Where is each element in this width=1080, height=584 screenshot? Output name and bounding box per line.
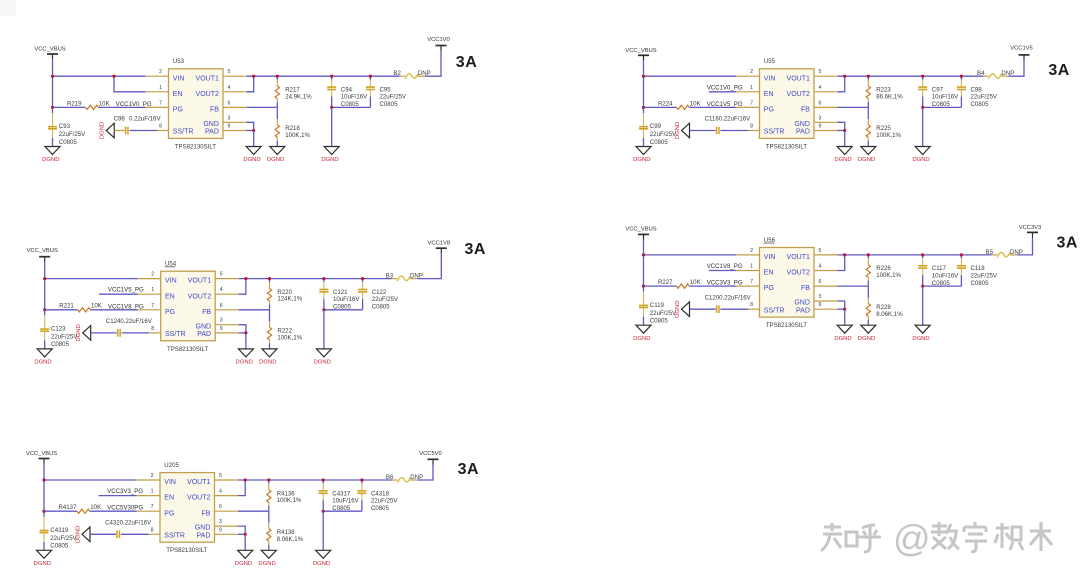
wire PAD to ground xyxy=(844,309,846,325)
wire PG row right xyxy=(90,510,137,512)
junction VOUT2 xyxy=(843,253,846,256)
svg-text:VCC3V3_PG: VCC3V3_PG xyxy=(107,488,143,495)
svg-text:2: 2 xyxy=(151,473,154,479)
junction C1 top xyxy=(330,75,333,78)
svg-text:TPS82130SILT: TPS82130SILT xyxy=(766,322,807,329)
svg-text:22uF/25V: 22uF/25V xyxy=(971,272,998,279)
wire VCC_VBUS vertical xyxy=(643,60,645,113)
junction C2 top xyxy=(361,277,364,280)
capacitor C97 10uF/16V C0805 xyxy=(918,76,959,108)
junction VBUS-VIN xyxy=(43,277,46,280)
wire PG row right xyxy=(689,106,736,108)
wire EN stub (net VCC1V5_PG) xyxy=(99,293,137,295)
junction C2 top xyxy=(960,75,963,78)
svg-text:C0805: C0805 xyxy=(971,280,990,287)
svg-text:C93: C93 xyxy=(59,123,71,130)
svg-text:10uF/16V: 10uF/16V xyxy=(932,94,959,101)
pin 4 VOUT2 xyxy=(188,287,239,300)
svg-text:VCC_VBUS: VCC_VBUS xyxy=(27,248,58,254)
svg-text:GND: GND xyxy=(794,121,810,128)
wire R1 top xyxy=(269,279,271,282)
junction R1 top xyxy=(867,75,870,78)
wire EN stub (net VCC1V8_PG) xyxy=(709,270,736,272)
wire EN tie to VIN xyxy=(114,76,145,92)
power flag VCC1V0 xyxy=(427,37,450,51)
pin 4 VOUT2 xyxy=(787,85,838,98)
svg-text:R225: R225 xyxy=(876,125,891,132)
pin 4 VOUT2 xyxy=(196,85,247,98)
resistor R224 10K xyxy=(658,100,701,109)
svg-text:3: 3 xyxy=(219,519,222,525)
capacitor C119 22uF/25V C0805 xyxy=(639,292,677,325)
svg-text:C97: C97 xyxy=(932,87,944,94)
resistor R218 100K,1% xyxy=(275,119,310,141)
svg-text:5: 5 xyxy=(220,272,223,278)
power flag VCC_VBUS (U54) xyxy=(27,248,58,262)
svg-text:100K,1%: 100K,1% xyxy=(285,132,310,139)
svg-text:5: 5 xyxy=(819,69,822,75)
svg-text:C0805: C0805 xyxy=(50,543,69,550)
pin 9 PAD xyxy=(796,302,837,314)
wire C2 down xyxy=(369,97,371,108)
IC U54 TPS82130SILT xyxy=(161,261,216,353)
pin 3 GND xyxy=(794,294,837,307)
junction GND/PAD xyxy=(244,533,247,536)
svg-text:C1160.22uF/16V: C1160.22uF/16V xyxy=(705,116,752,123)
svg-text:2: 2 xyxy=(151,272,154,278)
wire to input ground xyxy=(643,138,645,147)
junction cap ground xyxy=(330,106,333,109)
capacitor C118 22uF/25V C0805 xyxy=(957,255,998,287)
svg-text:DGND: DGND xyxy=(267,157,284,163)
svg-text:100K,1%: 100K,1% xyxy=(277,497,302,504)
resistor R217 24.9K,1% xyxy=(275,80,312,103)
svg-text:3A: 3A xyxy=(1048,62,1069,79)
svg-text:SS/TR: SS/TR xyxy=(165,331,186,338)
wire R2 to ground xyxy=(268,545,270,551)
svg-text:3: 3 xyxy=(819,294,822,300)
svg-text:DGND: DGND xyxy=(100,122,106,139)
pin 8 SS/TR xyxy=(149,527,185,539)
svg-text:4: 4 xyxy=(220,287,223,293)
wire C1 to bottom rail xyxy=(331,97,333,108)
wire to input ground xyxy=(52,138,54,147)
svg-text:VCC1V0: VCC1V0 xyxy=(427,37,450,43)
svg-text:2: 2 xyxy=(159,69,162,75)
resistor R4136 100K,1% xyxy=(267,483,302,506)
svg-text:VIN: VIN xyxy=(164,479,176,486)
svg-text:3A: 3A xyxy=(1057,234,1078,251)
wire VOUT rail xyxy=(247,75,400,77)
pin 1 EN xyxy=(138,287,175,300)
wire caps to ground xyxy=(331,107,333,146)
svg-text:1: 1 xyxy=(151,287,154,293)
corner speck xyxy=(0,0,16,16)
svg-text:DGND: DGND xyxy=(75,526,81,543)
ground DGND input xyxy=(37,349,52,357)
pin 4 VOUT2 xyxy=(187,489,238,502)
power flag VCC_VBUS (U55) xyxy=(625,48,656,61)
svg-text:2: 2 xyxy=(750,248,753,254)
svg-text:10K: 10K xyxy=(690,279,701,286)
wire VCC_VBUS vertical xyxy=(52,59,54,113)
ground DGND PAD xyxy=(238,550,253,558)
pin 3 GND xyxy=(196,318,239,331)
svg-text:PG: PG xyxy=(764,285,774,292)
resistor R222 100K,1% xyxy=(267,321,302,343)
svg-text:DGND: DGND xyxy=(314,360,331,366)
wire VOUT2 tie xyxy=(838,76,845,92)
wire GND jog xyxy=(238,526,245,534)
resistor R226 100K,1% xyxy=(866,258,901,281)
wire C1 to bottom rail xyxy=(922,97,924,108)
svg-text:PG: PG xyxy=(164,510,174,517)
svg-text:EN: EN xyxy=(764,91,774,98)
svg-text:5: 5 xyxy=(819,248,822,254)
capacitor C4320.22uF/16V 0.22uF/16V xyxy=(105,520,152,539)
svg-text:VOUT2: VOUT2 xyxy=(787,91,810,98)
wire EN stub (net VCC1V0_PG) xyxy=(709,91,736,93)
svg-text:VCC1V8_PG: VCC1V8_PG xyxy=(707,263,743,270)
svg-text:22uF/25V: 22uF/25V xyxy=(380,94,407,101)
junction VOUT2 xyxy=(244,277,247,280)
svg-text:7: 7 xyxy=(750,279,753,285)
svg-text:C123: C123 xyxy=(51,326,66,333)
ground DGND PAD xyxy=(837,147,852,155)
wire VIN rail from VCC_VBUS xyxy=(644,75,737,77)
wire PG row right xyxy=(689,285,736,287)
junction cap ground xyxy=(921,106,924,109)
resistor R4138 8.06K,1% xyxy=(267,523,304,545)
wire cap bottoms xyxy=(323,510,362,512)
junction cap ground xyxy=(322,308,325,311)
svg-text:EN: EN xyxy=(764,270,774,277)
svg-text:24.9K,1%: 24.9K,1% xyxy=(285,93,312,100)
ferrite bead B2 DNP xyxy=(393,70,430,79)
svg-text:VIN: VIN xyxy=(764,254,776,261)
svg-text:DGND: DGND xyxy=(34,360,51,366)
pin 9 PAD xyxy=(796,124,837,136)
svg-text:22uF/25V: 22uF/25V xyxy=(372,296,399,303)
wire PG row right xyxy=(91,309,138,311)
svg-text:VIN: VIN xyxy=(165,278,177,285)
svg-text:124K,1%: 124K,1% xyxy=(277,296,302,303)
wire R1 to FB xyxy=(268,506,270,511)
ferrite bead B3 DNP xyxy=(386,273,423,282)
junction C1 top xyxy=(921,253,924,256)
svg-text:C0805: C0805 xyxy=(372,304,391,311)
svg-text:B4: B4 xyxy=(977,70,985,77)
junction C1 top xyxy=(322,277,325,280)
IC U55 TPS82130SILT xyxy=(760,58,815,150)
capacitor C1160.22uF/16V 0.22uF/16V xyxy=(705,116,752,135)
wire SS ground to cap xyxy=(90,533,116,535)
svg-text:C4318: C4318 xyxy=(371,490,390,497)
wire to input ground xyxy=(43,542,45,551)
ground DGND caps xyxy=(316,550,331,558)
wire PAD to ground xyxy=(244,534,246,550)
wire R1 top xyxy=(268,480,270,483)
pin 6 FB xyxy=(201,504,238,517)
wire bead to output flag xyxy=(1017,237,1032,255)
svg-text:R222: R222 xyxy=(277,328,292,335)
svg-text:C1200.22uF/16V: C1200.22uF/16V xyxy=(705,294,752,301)
junction VBUS-PG row xyxy=(642,106,645,109)
svg-text:4: 4 xyxy=(819,264,822,270)
capacitor C4317 10uF/16V C0805 xyxy=(319,480,360,512)
svg-text:10uF/16V: 10uF/16V xyxy=(333,296,360,303)
wire SS cap to pin xyxy=(720,130,748,132)
wire R1 to FB xyxy=(867,102,869,107)
capacitor C95 22uF/25V C0805 xyxy=(366,76,407,108)
wire PG row left xyxy=(45,309,78,311)
power flag VCC1V8 xyxy=(428,240,451,253)
ground DGND SS/TR xyxy=(83,326,91,341)
wire R1 top xyxy=(276,76,278,79)
wire R2 to ground xyxy=(269,343,271,349)
resistor R223 86.6K,1% xyxy=(866,80,903,103)
svg-text:C0805: C0805 xyxy=(380,101,399,108)
svg-text:3: 3 xyxy=(819,115,822,121)
svg-text:9: 9 xyxy=(220,326,223,332)
svg-text:VIN: VIN xyxy=(173,75,185,82)
ground DGND R2 xyxy=(261,550,276,558)
svg-text:R4138: R4138 xyxy=(277,529,296,536)
svg-text:5: 5 xyxy=(228,69,231,75)
power flag VCC1V5 xyxy=(1010,46,1033,61)
svg-text:@: @ xyxy=(893,518,931,559)
wire C1 to bottom rail xyxy=(922,275,924,286)
svg-text:VOUT1: VOUT1 xyxy=(188,278,211,285)
svg-text:VOUT2: VOUT2 xyxy=(787,270,810,277)
svg-text:VOUT2: VOUT2 xyxy=(196,91,219,98)
svg-text:22uF/25V: 22uF/25V xyxy=(650,310,677,317)
wire to input ground xyxy=(44,340,46,349)
resistor R219 10K xyxy=(67,100,110,109)
junction VBUS-VIN xyxy=(51,75,54,78)
ground DGND caps xyxy=(316,349,331,357)
junction EN tie xyxy=(112,75,115,78)
svg-text:3A: 3A xyxy=(456,54,477,71)
svg-text:C0805: C0805 xyxy=(59,139,78,146)
ground DGND PAD xyxy=(238,349,253,357)
junction C2 top xyxy=(369,75,372,78)
wire FB to R2 xyxy=(867,107,869,119)
svg-text:C4317: C4317 xyxy=(332,490,351,497)
svg-text:DGND: DGND xyxy=(912,157,929,163)
svg-text:VIN: VIN xyxy=(764,75,776,82)
svg-text:C118: C118 xyxy=(971,265,986,272)
ground DGND input xyxy=(37,550,52,558)
wire SS cap to pin xyxy=(122,332,150,334)
svg-text:10uF/16V: 10uF/16V xyxy=(932,272,959,279)
wire C2 down xyxy=(960,97,962,108)
svg-text:PAD: PAD xyxy=(197,331,211,338)
wire PG row left xyxy=(53,106,86,108)
svg-text:10K: 10K xyxy=(90,504,101,511)
resistor R4137 10K xyxy=(59,504,102,513)
wire PG row left xyxy=(644,106,677,108)
svg-text:DGND: DGND xyxy=(235,561,252,567)
svg-text:PG: PG xyxy=(764,107,774,114)
svg-text:22uF/25V: 22uF/25V xyxy=(650,131,677,138)
svg-text:C117: C117 xyxy=(932,265,947,272)
svg-text:C119: C119 xyxy=(650,302,665,309)
svg-text:B6: B6 xyxy=(386,474,394,481)
ground DGND R2 xyxy=(861,325,876,333)
pin 6 FB xyxy=(210,100,247,113)
wire FB to divider xyxy=(247,106,278,108)
svg-text:VCC1V0_PG: VCC1V0_PG xyxy=(707,84,743,91)
svg-text:6: 6 xyxy=(228,100,231,106)
wire VOUT rail xyxy=(838,254,992,256)
svg-text:2: 2 xyxy=(750,69,753,75)
junction C1 top xyxy=(921,75,924,78)
wire VIN rail from VCC_VBUS xyxy=(644,254,737,256)
wire caps to ground xyxy=(922,286,924,325)
capacitor C117 10uF/16V C0805 xyxy=(918,255,959,287)
junction cap ground xyxy=(921,285,924,288)
wire SS ground to cap xyxy=(91,332,117,334)
wire GND jog xyxy=(239,325,246,333)
svg-text:VCC3V3: VCC3V3 xyxy=(1019,225,1042,231)
svg-text:C1240.22uF/16V: C1240.22uF/16V xyxy=(106,318,153,325)
wire bead to output flag xyxy=(425,51,441,77)
junction C2 top xyxy=(360,478,363,481)
capacitor C94 10uF/16V C0805 xyxy=(327,76,368,108)
pin 2 VIN xyxy=(736,69,775,82)
svg-text:10K: 10K xyxy=(91,303,102,310)
svg-text:6: 6 xyxy=(220,303,223,309)
capacitor C1240.22uF/16V 0.22uF/16V xyxy=(106,318,153,337)
wire C2 down xyxy=(960,275,962,286)
svg-text:R218: R218 xyxy=(285,125,300,132)
svg-text:9: 9 xyxy=(819,302,822,308)
junction VBUS-PG row xyxy=(43,308,46,311)
capacitor C123 22uF/25V C0805 xyxy=(40,315,78,348)
svg-text:100K,1%: 100K,1% xyxy=(876,272,901,279)
wire SS cap to pin xyxy=(720,308,748,310)
svg-text:DGND: DGND xyxy=(313,561,330,567)
svg-text:DGND: DGND xyxy=(76,324,82,341)
ground DGND R2 xyxy=(270,147,285,155)
wire FB to R2 xyxy=(268,511,270,523)
svg-text:1: 1 xyxy=(750,264,753,270)
svg-text:R4137: R4137 xyxy=(59,504,78,511)
svg-text:8: 8 xyxy=(151,326,154,332)
svg-text:SS/TR: SS/TR xyxy=(164,533,185,540)
pin 8 SS/TR xyxy=(748,124,784,136)
svg-text:C0805: C0805 xyxy=(51,341,70,348)
svg-text:8: 8 xyxy=(159,124,162,130)
ground DGND input xyxy=(45,147,60,155)
wire PAD to ground xyxy=(844,131,846,147)
wire PG row right xyxy=(98,106,145,108)
svg-text:TPS82130SILT: TPS82130SILT xyxy=(175,143,216,150)
svg-text:DGND: DGND xyxy=(243,157,260,163)
wire FB to divider xyxy=(239,309,270,311)
svg-text:DGND: DGND xyxy=(675,122,681,139)
svg-text:GND: GND xyxy=(195,525,211,532)
svg-text:SS/TR: SS/TR xyxy=(764,129,785,136)
svg-text:DGND: DGND xyxy=(834,336,851,342)
junction cap ground xyxy=(322,510,325,513)
wire PAD to ground xyxy=(253,131,255,147)
capacitor C1200.22uF/16V 0.22uF/16V xyxy=(705,294,752,313)
capacitor C99 22uF/25V C0805 xyxy=(639,113,677,146)
svg-text:C121: C121 xyxy=(333,289,348,296)
wire C2 down xyxy=(362,299,364,310)
wire VOUT2 tie xyxy=(238,480,245,496)
capacitor C122 22uF/25V C0805 xyxy=(358,279,399,311)
svg-text:DGND: DGND xyxy=(912,336,929,342)
svg-text:PAD: PAD xyxy=(796,307,810,314)
capacitor C4318 22uF/25V C0805 xyxy=(357,480,398,512)
wire FB to R2 xyxy=(867,286,869,298)
wire FB to divider xyxy=(838,106,869,108)
svg-text:DGND: DGND xyxy=(34,561,51,567)
wire caps to ground xyxy=(323,310,325,349)
junction R1 top xyxy=(267,478,270,481)
svg-text:1: 1 xyxy=(159,85,162,91)
ground DGND R2 xyxy=(262,349,277,357)
capacitor C93 22uF/25V C0805 xyxy=(48,113,86,146)
junction VBUS-PG row xyxy=(42,510,45,513)
svg-text:C98: C98 xyxy=(971,87,983,94)
svg-text:4: 4 xyxy=(219,489,222,495)
pin 9 PAD xyxy=(205,124,246,136)
svg-text:R228: R228 xyxy=(876,304,891,311)
svg-text:FB: FB xyxy=(201,510,210,517)
pin 2 VIN xyxy=(138,272,177,285)
resistor R228 8.06K,1% xyxy=(866,298,903,320)
wire C1 to bottom rail xyxy=(322,500,324,511)
svg-text:100K,1%: 100K,1% xyxy=(277,335,302,342)
pin 7 PG xyxy=(138,303,176,316)
wire PAD xyxy=(238,533,245,535)
junction VOUT2 xyxy=(244,478,247,481)
capacitor C96 0.22uF/16V xyxy=(114,116,162,135)
svg-text:86.6K,1%: 86.6K,1% xyxy=(876,93,903,100)
svg-text:7: 7 xyxy=(159,100,162,106)
junction VBUS-VIN xyxy=(642,75,645,78)
wire PAD to ground xyxy=(245,333,247,349)
IC U205 TPS82130SILT xyxy=(160,462,215,554)
wire PG row left xyxy=(644,285,677,287)
svg-text:3A: 3A xyxy=(465,241,486,258)
svg-text:VCC5V0: VCC5V0 xyxy=(419,451,442,457)
svg-text:22uF/25V: 22uF/25V xyxy=(59,131,86,138)
wire FB to divider xyxy=(238,510,269,512)
junction R1 top xyxy=(276,75,279,78)
svg-text:DGND: DGND xyxy=(321,157,338,163)
svg-text:GND: GND xyxy=(794,300,810,307)
svg-text:DGND: DGND xyxy=(259,360,276,366)
svg-text:6: 6 xyxy=(819,100,822,106)
svg-text:C4319: C4319 xyxy=(50,527,69,534)
svg-text:VOUT1: VOUT1 xyxy=(787,254,810,261)
IC U56 TPS82130SILT xyxy=(760,237,815,329)
ferrite bead B5 DNP xyxy=(986,249,1023,258)
wire FB to R2 xyxy=(269,310,271,322)
svg-text:VCC_VBUS: VCC_VBUS xyxy=(625,48,656,54)
svg-text:R224: R224 xyxy=(658,100,673,107)
svg-text:SS/TR: SS/TR xyxy=(764,307,785,314)
wire SS cap to pin xyxy=(129,130,157,132)
svg-text:5: 5 xyxy=(219,473,222,479)
svg-text:3A: 3A xyxy=(458,461,479,478)
svg-text:GND: GND xyxy=(196,323,212,330)
